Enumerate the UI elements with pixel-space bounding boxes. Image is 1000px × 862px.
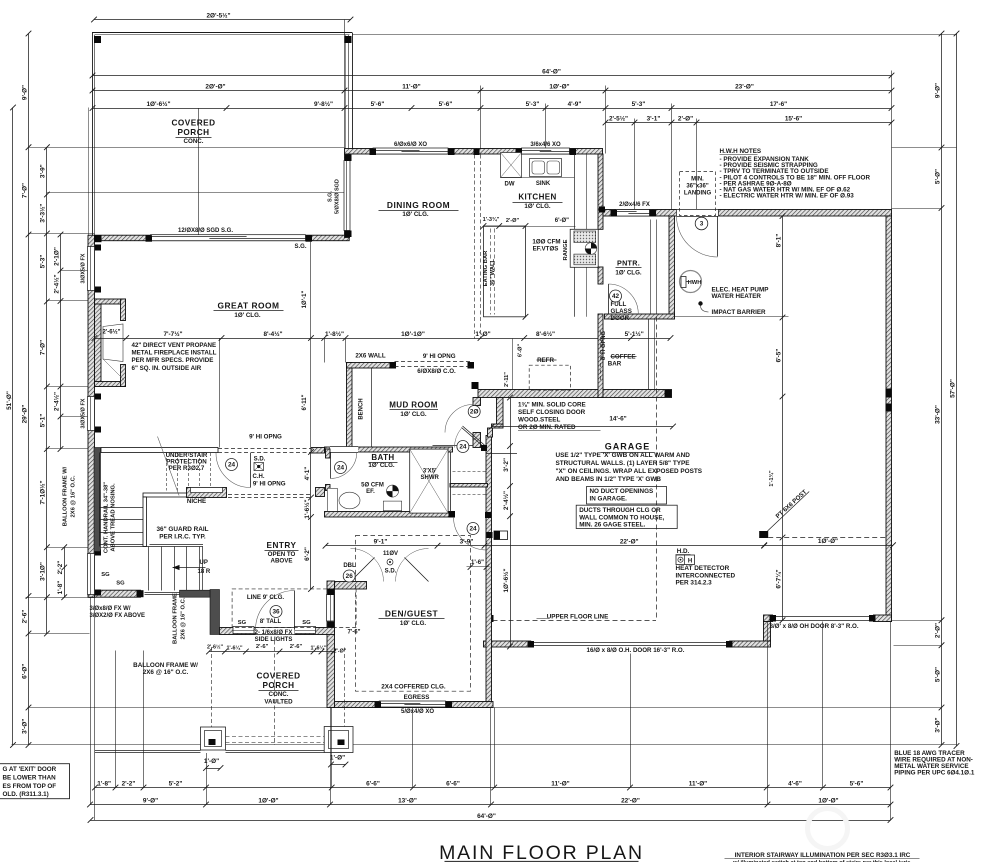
svg-text:INTERIOR STAIRWAY ILLUMINATION: INTERIOR STAIRWAY ILLUMINATION PER SEC R…	[735, 852, 911, 859]
svg-text:METAL FIREPLACE INSTALL: METAL FIREPLACE INSTALL	[132, 350, 217, 357]
svg-text:PIPING PER UPC 6Ø4.1Ø.1: PIPING PER UPC 6Ø4.1Ø.1	[894, 770, 975, 777]
svg-text:2'-6": 2'-6"	[290, 644, 303, 650]
svg-text:PNTR.: PNTR.	[617, 259, 640, 268]
svg-text:18 R: 18 R	[198, 569, 211, 575]
door number 24 stairs	[226, 459, 238, 471]
left dimension chain x60	[60, 235, 62, 450]
svg-text:1Ø'-Ø": 1Ø'-Ø"	[818, 797, 838, 804]
opening dashed y494 entry/hall	[228, 494, 311, 496]
svg-text:24: 24	[459, 444, 467, 451]
porch top small dims	[209, 651, 334, 653]
door number 36	[270, 606, 282, 618]
door number 20	[468, 406, 480, 418]
svg-text:BAR: BAR	[608, 361, 622, 368]
svg-text:33'-Ø": 33'-Ø"	[934, 405, 941, 424]
dark wall west inner x95	[94, 448, 101, 552]
svg-text:DBL: DBL	[343, 563, 356, 569]
svg-text:H.D.: H.D.	[677, 548, 690, 555]
no duct openings box	[587, 487, 667, 505]
svg-text:5'-6": 5'-6"	[850, 780, 864, 787]
watermark circle	[808, 809, 848, 849]
svg-text:8' H OPNG: 8' H OPNG	[601, 330, 607, 360]
porch corner posts	[94, 36, 101, 43]
svg-text:7'-1Ø½": 7'-1Ø½"	[39, 480, 47, 504]
svg-text:CONC.: CONC.	[184, 138, 204, 145]
wall: garage west / den east x486	[486, 436, 492, 708]
column dims 1'-0	[206, 768, 221, 770]
left dimension chain x27	[28, 34, 30, 746]
door 20 leaf and swing	[433, 445, 474, 447]
wall: entry south west part	[90, 590, 141, 597]
svg-text:EATING BAR: EATING BAR	[483, 250, 489, 286]
svg-text:5'-3": 5'-3"	[40, 255, 47, 269]
extension lines top verticals	[344, 20, 346, 149]
svg-text:5'-6": 5'-6"	[439, 101, 453, 108]
bottom extension verticals	[767, 622, 769, 805]
wall: mud room west x346	[347, 363, 353, 448]
svg-text:S.G.: S.G.	[328, 191, 334, 202]
svg-text:3'-3½": 3'-3½"	[39, 204, 47, 223]
svg-text:1ØØ CFM: 1ØØ CFM	[532, 239, 560, 246]
wall: west exterior x88	[88, 235, 95, 597]
svg-text:1Ø'-Ø": 1Ø'-Ø"	[549, 83, 569, 90]
exit door note box	[0, 764, 70, 799]
svg-text:2'-5½": 2'-5½"	[609, 114, 628, 122]
svg-text:2Ø: 2Ø	[470, 409, 479, 416]
svg-text:HEAT DETECTOR: HEAT DETECTOR	[676, 565, 730, 572]
extension line y207 right	[892, 208, 942, 210]
svg-text:3/ØX5/Ø FX: 3/ØX5/Ø FX	[81, 253, 87, 283]
wall: bump bottom 8/0 door y614	[764, 615, 892, 622]
svg-text:DOOR: DOOR	[611, 315, 630, 322]
ducts through clg box	[576, 505, 677, 528]
door number 3	[695, 217, 708, 230]
svg-text:KITCHEN: KITCHEN	[518, 193, 556, 202]
svg-text:LANDING: LANDING	[684, 191, 712, 197]
svg-text:NICHE: NICHE	[187, 498, 206, 505]
svg-text:2'-11": 2'-11"	[504, 372, 510, 387]
svg-text:1'-6½": 1'-6½"	[303, 499, 311, 518]
svg-text:2'-4½": 2'-4½"	[52, 392, 60, 411]
dim line y545 left part	[326, 545, 765, 547]
svg-text:9'-Ø": 9'-Ø"	[21, 85, 28, 100]
svg-text:BALLOON FRAME: BALLOON FRAME	[173, 593, 179, 644]
svg-text:9'-Ø": 9'-Ø"	[143, 797, 158, 804]
svg-text:2'-Ø": 2'-Ø"	[678, 115, 693, 122]
stair UP arrow	[173, 567, 206, 569]
svg-text:GREAT ROOM: GREAT ROOM	[217, 301, 279, 311]
svg-text:1Ø' CLG.: 1Ø' CLG.	[615, 270, 642, 277]
svg-text:16/Ø x 8/Ø O.H. DOOR 16'-3" R.: 16/Ø x 8/Ø O.H. DOOR 16'-3" R.O.	[587, 647, 685, 654]
svg-text:SG: SG	[238, 620, 247, 626]
right wall electrical marks	[886, 389, 892, 398]
svg-text:2'-Ø": 2'-Ø"	[506, 218, 520, 224]
firebox	[103, 324, 123, 362]
svg-text:SG: SG	[116, 581, 125, 587]
svg-text:36: 36	[272, 609, 280, 616]
svg-text:2X6 WALL: 2X6 WALL	[355, 353, 385, 360]
svg-text:6'-6": 6'-6"	[366, 780, 380, 787]
vertical ext x323 x345	[324, 338, 326, 363]
svg-text:5/Øx4/Ø XO: 5/Øx4/Ø XO	[401, 709, 434, 715]
svg-text:BALLOON FRAME W/: BALLOON FRAME W/	[133, 662, 198, 669]
svg-text:3/ØX2/Ø FX ABOVE: 3/ØX2/Ø FX ABOVE	[90, 613, 145, 619]
bath door opening	[330, 447, 358, 453]
svg-text:EGRESS: EGRESS	[404, 694, 430, 701]
svg-text:6'-7¼": 6'-7¼"	[774, 569, 782, 588]
window west 3/0X5/0 FX upper	[88, 247, 95, 291]
svg-text:MIN. 26 GAGE STEEL.: MIN. 26 GAGE STEEL.	[579, 522, 645, 529]
closet walls right of shower	[450, 484, 488, 488]
den hall dim x509	[510, 398, 512, 647]
svg-text:2'-2": 2'-2"	[122, 780, 136, 787]
extension line y147 right	[892, 147, 957, 149]
svg-text:4'-9": 4'-9"	[568, 101, 582, 108]
svg-text:ES FROM TOP OF: ES FROM TOP OF	[3, 783, 57, 790]
shower 3x5	[410, 449, 448, 513]
window 12/0X8/0 SGD great room north	[151, 235, 306, 241]
right outer dimension 57'-0	[956, 34, 958, 747]
svg-text:1Ø' CLG.: 1Ø' CLG.	[400, 620, 427, 627]
svg-text:11ØV: 11ØV	[383, 551, 398, 557]
svg-text:STRUCTURAL WALLS. (1) LAYER 5: STRUCTURAL WALLS. (1) LAYER 5/8" TYPE	[556, 460, 691, 467]
svg-text:2'-6½": 2'-6½"	[103, 329, 121, 336]
svg-text:2X4 COFFERED CLG.: 2X4 COFFERED CLG.	[381, 684, 446, 691]
svg-text:1'-Ø": 1'-Ø"	[475, 331, 490, 338]
porch slab lines	[95, 750, 201, 752]
svg-text:1Ø'-1Ø": 1Ø'-1Ø"	[401, 331, 425, 338]
svg-text:3'-2": 3'-2"	[503, 458, 510, 472]
svg-text:3'-9": 3'-9"	[460, 539, 474, 546]
wall: den north segment	[335, 582, 367, 590]
den coffered dashed rect	[356, 536, 471, 692]
left chain lower x60	[64, 547, 66, 597]
door number 24 bath	[335, 462, 347, 474]
extension line pantry wall to garage dim	[675, 316, 789, 318]
kitchen east wall lower	[598, 267, 603, 284]
svg-text:1'-8": 1'-8"	[97, 780, 111, 787]
stair rail	[150, 544, 204, 546]
svg-text:5'-2": 5'-2"	[169, 780, 183, 787]
kitchen sink	[530, 159, 562, 177]
svg-text:1'-8½": 1'-8½"	[325, 330, 344, 338]
left outer dimension line 51'-0"	[12, 108, 14, 746]
door 3 leaf and swing	[717, 216, 719, 257]
svg-text:2'-4½": 2'-4½"	[502, 491, 510, 510]
svg-text:MAIN FLOOR PLAN: MAIN FLOOR PLAN	[439, 842, 644, 862]
svg-text:4'-1": 4'-1"	[304, 467, 311, 481]
wall: thick y389 house/garage	[478, 390, 672, 398]
svg-text:5'-Ø": 5'-Ø"	[934, 667, 941, 682]
svg-text:6'-11": 6'-11"	[302, 394, 308, 410]
svg-text:"X" ON CEILINGS. WRAP ALL EXP: "X" ON CEILINGS. WRAP ALL EXPOSED POSTS	[556, 468, 703, 475]
svg-text:5'-3": 5'-3"	[632, 101, 646, 108]
svg-text:7'-7½": 7'-7½"	[163, 330, 182, 338]
extension line porch top to right dims	[353, 34, 957, 36]
door number 24 den	[467, 523, 479, 535]
svg-text:8'-4½": 8'-4½"	[263, 330, 282, 338]
wall: top exterior (dining+kitchen) y148	[345, 149, 603, 155]
svg-text:11'-Ø": 11'-Ø"	[551, 780, 569, 787]
svg-text:64'-Ø": 64'-Ø"	[477, 813, 496, 820]
svg-text:6'-Ø": 6'-Ø"	[555, 218, 569, 224]
svg-text:4'-6": 4'-6"	[788, 780, 802, 787]
window 2/0x4/6 FX garage top	[616, 210, 650, 217]
bottom dim line y787	[95, 787, 891, 789]
svg-text:WOOD.STEEL: WOOD.STEEL	[518, 417, 560, 424]
top dimension 64'-0 overall	[93, 75, 892, 77]
wall: mud/garage east upper x496	[497, 398, 504, 427]
privacy wall stub	[316, 488, 325, 497]
under stair leader line	[158, 437, 180, 496]
den double doors	[351, 558, 375, 582]
svg-text:SG: SG	[302, 620, 311, 626]
svg-text:S.G.: S.G.	[294, 244, 306, 250]
svg-text:2'-Ø": 2'-Ø"	[334, 649, 347, 655]
svg-text:8' TALL: 8' TALL	[260, 619, 282, 625]
svg-text:3/ØX5/Ø FX: 3/ØX5/Ø FX	[81, 398, 87, 428]
svg-text:3'-1Ø": 3'-1Ø"	[40, 562, 47, 581]
svg-text:PER 314.2.3: PER 314.2.3	[676, 580, 713, 587]
wall: great room south y447	[101, 448, 218, 453]
svg-text:9' HI OPNG: 9' HI OPNG	[249, 434, 282, 441]
svg-text:H.W.H NOTES: H.W.H NOTES	[720, 148, 762, 155]
svg-text:G AT 'EXIT' DOOR: G AT 'EXIT' DOOR	[3, 766, 57, 773]
svg-text:DUCTS THROUGH CLG OR: DUCTS THROUGH CLG OR	[579, 507, 661, 514]
svg-text:SIDE LIGHTS: SIDE LIGHTS	[255, 637, 293, 643]
svg-text:6'-5": 6'-5"	[775, 349, 782, 363]
svg-text:CONT. HANDRAIL 34"-38": CONT. HANDRAIL 34"-38"	[104, 482, 110, 553]
island dims	[484, 226, 576, 228]
svg-text:8'-6½": 8'-6½"	[536, 330, 555, 338]
range	[570, 229, 598, 267]
top dimension line 20/11/10/23	[93, 90, 892, 92]
svg-text:6'-Ø": 6'-Ø"	[21, 664, 28, 679]
bottom dim line y804	[90, 804, 891, 806]
wall: great room top y234	[95, 235, 350, 241]
svg-text:PER MFR SPECS. PROVIDE: PER MFR SPECS. PROVIDE	[132, 357, 214, 364]
wall: garage bottom y640	[484, 641, 771, 647]
window band entry south	[145, 592, 180, 594]
svg-text:MIN.: MIN.	[691, 177, 704, 183]
upper floor line dashed garage	[493, 620, 657, 622]
svg-text:IMPACT BARRIER: IMPACT BARRIER	[712, 309, 767, 316]
eating bar dashed lines	[474, 155, 476, 339]
svg-text:36" WALL: 36" WALL	[490, 258, 496, 286]
den alcove dashed	[232, 589, 356, 628]
svg-text:1'-1¾": 1'-1¾"	[768, 470, 775, 487]
svg-text:VAULTED: VAULTED	[264, 699, 293, 706]
svg-text:1'-6¼": 1'-6¼"	[310, 645, 327, 652]
svg-text:MUD ROOM: MUD ROOM	[389, 401, 438, 410]
svg-text:8/Ø' x 8/Ø OH DOOR 8'-3" R.O.: 8/Ø' x 8/Ø OH DOOR 8'-3" R.O.	[770, 623, 859, 630]
svg-text:24: 24	[337, 465, 345, 472]
wall: dining west SGD x344	[345, 154, 350, 238]
dim 14'-6	[492, 426, 673, 428]
pantry door 42	[608, 284, 610, 314]
svg-text:5Ø CFM: 5Ø CFM	[361, 483, 384, 489]
svg-text:1'-3¾": 1'-3¾"	[483, 216, 500, 223]
kitchen: DW box	[501, 153, 522, 178]
svg-text:9'-Ø": 9'-Ø"	[934, 83, 941, 98]
svg-text:DINING ROOM: DINING ROOM	[387, 200, 450, 210]
svg-text:22'-Ø": 22'-Ø"	[620, 539, 639, 546]
window 6/0x6/0 XO dining	[373, 148, 448, 154]
svg-text:C.H.: C.H.	[253, 474, 265, 480]
garage 8/0 door opening	[773, 615, 873, 623]
svg-text:11'-Ø": 11'-Ø"	[689, 780, 707, 787]
svg-text:3'-Ø": 3'-Ø"	[934, 717, 941, 732]
svg-text:INTERCONNECTED: INTERCONNECTED	[676, 572, 736, 579]
covered porch slab outline top-left	[92, 32, 352, 34]
kitchen counter edge	[574, 154, 576, 229]
svg-text:51'-Ø": 51'-Ø"	[6, 391, 13, 410]
wall: entry south dark part	[180, 590, 211, 597]
svg-text:PORCH: PORCH	[262, 681, 294, 690]
svg-text:2- 1/6x8/Ø FX: 2- 1/6x8/Ø FX	[255, 630, 293, 636]
svg-text:BATH: BATH	[371, 453, 394, 462]
stair risers lower flight	[148, 547, 150, 591]
svg-text:9'-8½": 9'-8½"	[314, 100, 333, 108]
svg-text:3'X5': 3'X5'	[423, 469, 437, 475]
svg-text:7'-Ø": 7'-Ø"	[21, 183, 28, 198]
left dimension chain x46	[46, 147, 48, 633]
PT 6X6 POST	[759, 531, 768, 538]
svg-text:2X6 @ 16" O.C.: 2X6 @ 16" O.C.	[71, 475, 77, 517]
top dimension line 2-5/3-1/2-0/15-6	[606, 122, 892, 124]
svg-text:6/Øx6/Ø XO: 6/Øx6/Ø XO	[394, 142, 427, 148]
svg-text:SG: SG	[101, 572, 110, 578]
svg-text:1Ø'-Ø": 1Ø'-Ø"	[818, 538, 838, 545]
svg-text:9' HI OPNG: 9' HI OPNG	[253, 481, 286, 488]
svg-text:3'-Ø": 3'-Ø"	[21, 719, 28, 734]
svg-text:1Ø'-6½": 1Ø'-6½"	[502, 568, 510, 592]
svg-text:6/ØX8/Ø C.O.: 6/ØX8/Ø C.O.	[417, 368, 456, 375]
wall: mud room top y362	[347, 363, 395, 369]
svg-text:5'-1½": 5'-1½"	[625, 330, 644, 338]
island corner tick	[523, 314, 529, 320]
svg-text:1Ø' CLG.: 1Ø' CLG.	[402, 211, 429, 218]
svg-text:42" DIRECT VENT PROPANE: 42" DIRECT VENT PROPANE	[132, 342, 217, 349]
wall: kitchen east x597	[598, 154, 603, 210]
svg-text:FULL: FULL	[611, 301, 627, 308]
svg-text:ENTRY: ENTRY	[267, 541, 297, 550]
svg-text:DEN/GUEST: DEN/GUEST	[385, 609, 439, 619]
wall: bath bottom y511	[325, 512, 455, 518]
svg-text:22'-Ø": 22'-Ø"	[621, 797, 640, 804]
svg-text:SELF CLOSING DOOR: SELF CLOSING DOOR	[518, 409, 586, 416]
svg-text:5'-6": 5'-6"	[371, 101, 385, 108]
range fan symbol	[585, 243, 597, 255]
svg-text:REFR: REFR	[537, 357, 554, 364]
svg-text:1Ø' CLG.: 1Ø' CLG.	[368, 462, 395, 469]
wall: garage top y209	[603, 210, 892, 217]
svg-text:57'-Ø": 57'-Ø"	[949, 379, 956, 398]
top dimension line 10-6/9-8/5-6/5-6/5-3/4-9/5-3/17-6	[93, 108, 892, 110]
svg-text:PORCH: PORCH	[177, 128, 209, 137]
svg-text:36" GUARD RAIL: 36" GUARD RAIL	[156, 526, 208, 533]
svg-text:8'-1": 8'-1"	[775, 234, 782, 248]
wall jog y424	[492, 424, 504, 428]
svg-text:S.D.: S.D.	[385, 569, 397, 575]
extension line y744 full width	[12, 744, 957, 746]
svg-text:24: 24	[228, 462, 236, 469]
svg-text:OR 2Ø MIN. RATED: OR 2Ø MIN. RATED	[518, 424, 576, 431]
svg-text:1'-8": 1'-8"	[57, 581, 64, 595]
svg-text:5'-3": 5'-3"	[526, 101, 540, 108]
svg-text:USE 1/2" TYPE 'X' GWB ON ALL W: USE 1/2" TYPE 'X' GWB ON ALL WARM AND	[556, 452, 691, 459]
sidelight east	[295, 627, 316, 634]
svg-text:42: 42	[612, 293, 620, 300]
door number 26	[343, 570, 355, 582]
svg-text:H: H	[688, 559, 692, 565]
svg-text:HWH: HWH	[688, 280, 702, 286]
svg-text:6'-Ø": 6'-Ø"	[518, 344, 524, 358]
closet shelves dashed	[453, 471, 488, 473]
wall: bath top y446	[325, 447, 453, 452]
closet door leaf	[462, 428, 485, 448]
svg-text:14'-6": 14'-6"	[609, 416, 626, 423]
svg-text:BENCH: BENCH	[359, 398, 365, 419]
svg-text:2'-6": 2'-6"	[256, 644, 269, 650]
svg-text:64'-Ø": 64'-Ø"	[542, 68, 561, 75]
svg-text:26: 26	[346, 573, 354, 580]
svg-text:2/Øx4/6 FX: 2/Øx4/6 FX	[619, 202, 650, 208]
svg-text:24: 24	[469, 526, 477, 533]
svg-text:9' HI OPNG: 9' HI OPNG	[423, 353, 456, 360]
svg-text:OLD. (R311.3.1): OLD. (R311.3.1)	[3, 791, 49, 798]
svg-text:UP: UP	[200, 560, 208, 566]
wall: x487 to bath	[488, 428, 493, 437]
window 3/6x4/6 XO kitchen	[522, 148, 570, 154]
svg-text:LINE 9' CLG.: LINE 9' CLG.	[247, 594, 285, 601]
svg-text:2X6 @ 16" O.C.: 2X6 @ 16" O.C.	[143, 669, 189, 676]
toilet	[327, 488, 337, 511]
dashed opening coffee bar	[600, 331, 602, 381]
wall: den bottom y701	[331, 702, 494, 708]
svg-text:PER I.R.C. TYP.: PER I.R.C. TYP.	[159, 534, 206, 541]
den entry door	[487, 453, 518, 455]
svg-text:5'-Ø": 5'-Ø"	[934, 169, 941, 184]
svg-text:IN GARAGE.: IN GARAGE.	[590, 496, 628, 503]
svg-text:2'-2": 2'-2"	[57, 561, 64, 575]
sidelight west	[233, 627, 254, 634]
svg-text:ABOVE TREAD NOSING.: ABOVE TREAD NOSING.	[111, 483, 117, 552]
niche wall	[143, 493, 187, 497]
svg-text:5/ØX8/Ø SGD: 5/ØX8/Ø SGD	[335, 179, 341, 214]
door number 24 closet	[457, 441, 469, 453]
bath door leaf and swing	[330, 452, 332, 479]
svg-text:9'-1": 9'-1"	[374, 539, 388, 546]
wall: den west x327	[327, 581, 335, 708]
front door opening	[256, 627, 295, 635]
electrical panel on garage wall	[494, 531, 508, 540]
min landing dashed box	[680, 172, 716, 216]
svg-text:UPPER FLOOR LINE: UPPER FLOOR LINE	[547, 614, 609, 621]
bench line	[371, 368, 373, 448]
HWH circle	[680, 271, 702, 293]
window west 3/0X5/0 FX mid	[88, 397, 95, 431]
svg-text:EF.: EF.	[366, 489, 375, 495]
porch interior vertical line	[198, 108, 200, 235]
svg-text:- ELECTRIC WATER HTR W/ MIN.: - ELECTRIC WATER HTR W/ MIN. EF OF Ø.93	[720, 193, 855, 200]
svg-text:17'-6": 17'-6"	[770, 101, 787, 108]
svg-text:1Ø' CLG.: 1Ø' CLG.	[234, 312, 261, 319]
svg-text:6'-2": 6'-2"	[304, 547, 311, 561]
svg-text:RANGE: RANGE	[563, 239, 569, 260]
extension line y707 full width	[28, 707, 942, 709]
refrigerator dashed	[529, 365, 570, 390]
